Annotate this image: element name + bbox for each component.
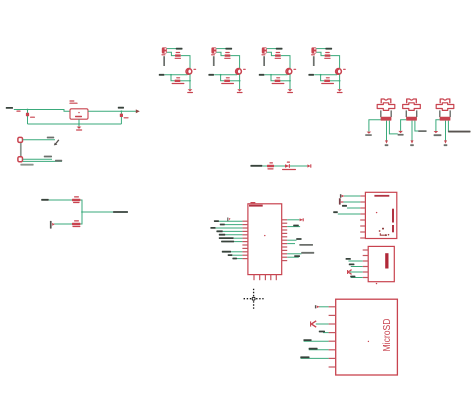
svg-text:MicroSD: MicroSD	[382, 319, 393, 352]
